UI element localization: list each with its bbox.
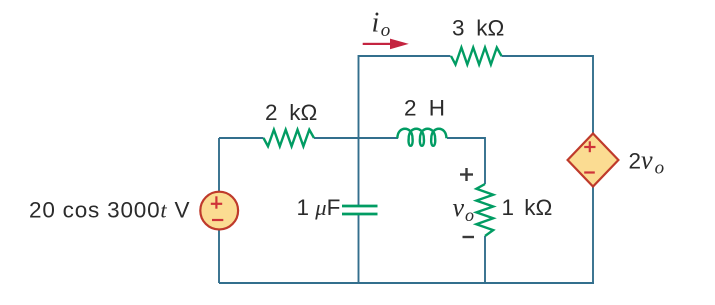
svg-text:3 kΩ: 3 kΩ: [452, 16, 504, 41]
wire middle vertical capacitor bottom: [358, 215, 360, 283]
wire 1k resistor bottom lead: [484, 236, 486, 283]
wire top horizontal left segment: [359, 56, 451, 138]
label vo plus: [460, 168, 473, 181]
dep source plus: [584, 141, 595, 172]
dep source minus: [584, 171, 595, 173]
wire top horizontal right segment: [502, 56, 594, 134]
svg-text:1 kΩ: 1 kΩ: [502, 195, 553, 220]
svg-text:io: io: [372, 8, 391, 42]
dependent source 2vo (diamond): [568, 134, 619, 187]
capacitor C 1 uF (two plates): [342, 206, 378, 214]
wire middle vertical through capacitor top: [358, 138, 360, 205]
svg-text:2 kΩ: 2 kΩ: [265, 100, 317, 125]
svg-text:vo: vo: [453, 193, 475, 225]
resistor R 1 kOhm (vertical zigzag): [476, 184, 493, 236]
wire 2k resistor to middle node: [314, 137, 398, 139]
resistor R 3 kOhm (horizontal zigzag, top): [451, 48, 502, 65]
wire left branch bottom: [218, 230, 220, 284]
wire right branch below diamond: [592, 187, 594, 284]
wire bottom rail: [219, 282, 594, 284]
inductor L 2 H: [397, 129, 446, 146]
wire inductor to 1k branch corner: [447, 138, 485, 184]
current arrow io (red): [363, 39, 409, 50]
wire top loop: middle node to top-right corner: [219, 56, 594, 283]
svg-text:2 H: 2 H: [404, 96, 445, 121]
label vo minus: [463, 236, 475, 238]
svg-text:1 μF: 1 μF: [297, 195, 341, 220]
svg-text:20 cos 3000t V: 20 cos 3000t V: [29, 198, 190, 223]
source plus: [211, 196, 224, 220]
voltage source Vs 20cos3000t (circle with plus minus): [200, 192, 238, 230]
wire middle horizontal: left corner to 2k resistor: [219, 137, 264, 139]
source minus: [212, 219, 223, 221]
resistor R 2 kOhm (horizontal zigzag): [264, 130, 315, 147]
wire left branch top: [218, 138, 220, 192]
svg-text:2vo: 2vo: [629, 145, 665, 178]
